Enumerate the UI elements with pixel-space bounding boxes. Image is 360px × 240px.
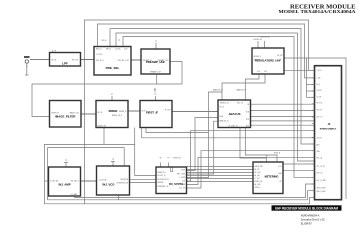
svg-text:MIXER_IF: MIXER_IF [119, 111, 126, 113]
svg-text:5.0_BT_BD: 5.0_BT_BD [50, 181, 59, 183]
svg-text:SEL_TX: SEL_TX [237, 103, 244, 105]
svg-text:WR_LD: WR_LD [96, 49, 102, 51]
svg-text:INTERCONNECT: INTERCONNECT [320, 129, 337, 131]
svg-text:SCB: SCB [246, 112, 249, 114]
svg-text:RX_DTT: RX_DTT [317, 110, 323, 112]
svg-text:5.0_BT: 5.0_BT [317, 96, 322, 98]
svg-text:5.0L: 5.0L [257, 71, 260, 73]
svg-text:1-1.0207: 1-1.0207 [96, 54, 102, 56]
svg-text:MIXER_INJ_F: MIXER_INJ_F [112, 115, 122, 117]
svg-text:IF_OUT: IF_OUT [165, 110, 171, 112]
svg-text:WR_B: WR_B [106, 49, 111, 51]
svg-text:VCPP: VCPP [181, 170, 185, 172]
svg-text:PRGB_LB1: PRGB_LB1 [255, 181, 263, 183]
svg-text:FIRST_IF: FIRST_IF [146, 110, 158, 114]
svg-text:KEYED_B+: KEYED_B+ [254, 39, 263, 41]
svg-text:INJ_LBT_O: INJ_LBT_O [71, 181, 80, 183]
svg-text:5.0_BT_BD: 5.0_BT_BD [99, 180, 108, 182]
svg-text:TP_2 SEL_IO: TP_2 SEL_IO [228, 125, 239, 127]
svg-text:CLOCK: CLOCK [115, 49, 121, 51]
svg-text:IMAGE_FILTER: IMAGE_FILTER [55, 115, 75, 119]
svg-text:W_B: W_B [317, 84, 320, 86]
svg-text:RXDESF: RXDESF [158, 182, 164, 184]
svg-text:RF_DE: RF_DE [277, 55, 282, 57]
svg-text:RX_DTX: RX_DTX [317, 103, 323, 105]
svg-text:PRE_SEL: PRE_SEL [106, 66, 120, 70]
svg-text:INJ_VCO: INJ_VCO [103, 183, 116, 187]
svg-text:MODEL TRX4014A/CRX4004A: MODEL TRX4014A/CRX4004A [279, 9, 357, 14]
svg-text:GND_LL/BRT: GND_LL/BRT [317, 188, 326, 190]
svg-text:STRG_S: STRG_S [255, 187, 261, 189]
svg-text:MIXER_INJ: MIXER_INJ [98, 126, 107, 128]
svg-text:RSSI_B: RSSI_B [274, 153, 281, 155]
svg-text:B2: B2 [280, 181, 282, 183]
svg-text:SWITCH_B+: SWITCH_B+ [260, 37, 270, 39]
svg-text:IF_LB: IF_LB [220, 107, 224, 109]
svg-text:RF_LDB: RF_LDB [255, 172, 261, 174]
svg-text:9.6L: 9.6L [264, 71, 267, 73]
svg-text:IF_DET: IF_DET [317, 138, 322, 140]
svg-text:REN: REN [182, 184, 185, 186]
svg-text:LT_LBT: LT_LBT [255, 178, 260, 180]
svg-text:MIXER_IF: MIXER_IF [52, 113, 59, 115]
svg-text:INJ_AMP: INJ_AMP [58, 183, 70, 187]
svg-text:MIXER: MIXER [109, 109, 118, 113]
svg-text:EL/SR/97: EL/SR/97 [301, 222, 312, 226]
svg-text:STEERING_LIN: STEERING_LIN [158, 186, 169, 188]
svg-text:LPF: LPF [62, 61, 68, 65]
svg-text:5_LPDD: 5_LPDD [179, 177, 186, 179]
svg-text:WR_B: WR_B [102, 40, 108, 42]
svg-text:USC_DT: USC_DT [317, 117, 323, 119]
svg-text:ABACUS_B: ABACUS_B [236, 89, 246, 92]
svg-text:RF_OUT: RF_OUT [72, 60, 78, 62]
svg-text:PRL_IN_B: PRL_IN_B [96, 60, 104, 62]
svg-text:RSSTL_B: RSSTL_B [173, 158, 181, 160]
svg-text:ABACUS: ABACUS [229, 112, 241, 116]
svg-text:SPL_LB: SPL_LB [317, 158, 323, 160]
svg-text:RX_EXT_IF: RX_EXT_IF [158, 175, 166, 177]
svg-text:ABACUS_IO: ABACUS_IO [213, 89, 223, 92]
svg-text:DSC_LB: DSC_LB [317, 173, 323, 175]
svg-text:REC_LPDD: REC_LPDD [177, 174, 186, 176]
svg-text:DISCR_PRI: DISCR_PRI [255, 166, 264, 168]
svg-text:UHF RECEIVER MODULE BLOCK DIAG: UHF RECEIVER MODULE BLOCK DIAGRAM [275, 206, 338, 210]
svg-text:KEYED_B: KEYED_B [254, 56, 261, 58]
svg-text:MIXER_INJ: MIXER_INJ [158, 172, 166, 174]
svg-text:1-1.P: 1-1.P [278, 166, 282, 168]
svg-text:GND_LL/BPF: GND_LL/BPF [317, 191, 326, 193]
svg-text:METERING: METERING [265, 175, 279, 179]
svg-text:STEERING_LIN: STEERING_LIN [116, 182, 128, 184]
svg-text:CB: CB [247, 104, 249, 106]
svg-text:DEMOD_IN: DEMOD_IN [220, 103, 229, 105]
svg-text:RXSYNTH: RXSYNTH [120, 179, 128, 181]
svg-text:RSSI: RSSI [220, 116, 224, 118]
svg-text:SWITCH_B+: SWITCH_B+ [254, 60, 263, 62]
svg-text:PRE_SEL_OUT: PRE_SEL_OUT [118, 60, 129, 62]
svg-text:1_NB: 1_NB [316, 78, 320, 80]
svg-text:1-PL_B: 1-PL_B [317, 70, 322, 72]
svg-text:CLOCK: CLOCK [317, 90, 322, 92]
svg-text:VOL_LD_BRT: VOL_LD_BRT [317, 180, 327, 182]
svg-text:STL_LD_BT: STL_LD_BT [317, 166, 325, 168]
svg-text:VOL_DP: VOL_DP [179, 188, 185, 190]
